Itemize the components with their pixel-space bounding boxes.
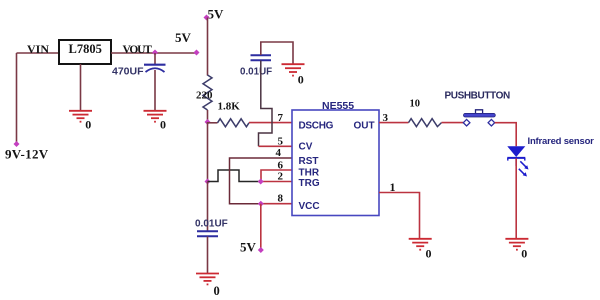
wire top cap down staircase to CV	[259, 61, 273, 147]
resistor R 220 vertical	[203, 75, 212, 110]
net 0 label (LED ground)	[521, 247, 527, 261]
pin number 4	[276, 147, 282, 159]
svg-text:OUT: OUT	[354, 120, 375, 131]
svg-text:PUSHBUTTON: PUSHBUTTON	[445, 91, 510, 102]
wire R220 bottom lead	[207, 110, 209, 122]
capacitor C3 0.01UF bottom	[197, 231, 218, 236]
pin number 2	[278, 170, 284, 182]
junction dot R220/R1.8K	[205, 119, 211, 125]
svg-text:0.01UF: 0.01UF	[195, 218, 228, 229]
svg-text:0: 0	[521, 247, 527, 261]
node VIN label	[27, 42, 49, 56]
svg-text:THR: THR	[299, 167, 320, 178]
svg-text:5V: 5V	[175, 30, 192, 45]
junction dot at 470UF tap	[152, 50, 158, 56]
pin label OUT	[354, 120, 375, 131]
pin number 3	[383, 112, 389, 124]
pin number 6	[278, 159, 284, 171]
svg-text:0.01UF: 0.01UF	[240, 66, 272, 77]
svg-text:VIN: VIN	[27, 42, 49, 56]
node VOUT label	[123, 44, 153, 56]
svg-text:5: 5	[278, 136, 284, 148]
svg-text:VOUT: VOUT	[123, 44, 153, 56]
pin number 1	[390, 180, 396, 194]
ground under L7805	[69, 111, 92, 122]
svg-text:2: 2	[278, 170, 284, 182]
net 5V label (bottom)	[240, 240, 257, 255]
value 0.01UF label (bottom cap)	[195, 218, 228, 229]
svg-text:5V: 5V	[208, 7, 225, 22]
node 5V terminal dot (left)	[194, 50, 200, 56]
op-amp U1 NE555 body	[292, 100, 379, 216]
diode D1 infrared LED	[507, 146, 528, 176]
svg-text:L7805: L7805	[69, 42, 102, 56]
net 0 label (pin1 ground)	[426, 247, 432, 261]
wire 5V rail mid section	[207, 122, 209, 182]
svg-text:1.8K: 1.8K	[218, 101, 241, 113]
net 0 label (top right ground)	[298, 72, 304, 86]
node 9V-12V label	[5, 147, 49, 162]
wire LED to ground	[515, 158, 517, 238]
pin label TRG	[299, 178, 320, 189]
ground under bottom 0.01UF	[196, 274, 219, 285]
wire R10 to pushbutton	[442, 122, 464, 124]
value 0.01UF label (top cap)	[240, 66, 272, 77]
svg-text:7: 7	[278, 112, 284, 124]
svg-text:10: 10	[410, 98, 421, 109]
svg-text:DSCHG: DSCHG	[299, 120, 334, 131]
pin label THR	[299, 167, 320, 178]
wire top cap to ground	[261, 42, 293, 64]
value 220 label	[196, 90, 213, 102]
wire VCC pin8 lead	[261, 203, 292, 205]
svg-text:0: 0	[426, 247, 432, 261]
junction dot THR/TRG tap	[205, 179, 211, 185]
svg-text:4: 4	[276, 147, 282, 159]
pin number 5	[278, 136, 284, 148]
svg-text:470UF: 470UF	[112, 66, 144, 78]
value 1.8K label	[218, 101, 241, 113]
ground under pin1	[409, 239, 432, 250]
pin number 7	[278, 112, 284, 124]
svg-text:0: 0	[160, 117, 166, 131]
value 10 label	[410, 98, 421, 109]
ground top right	[282, 64, 305, 75]
wire 1.8K left lead	[208, 122, 218, 124]
value 470UF label	[112, 66, 144, 78]
wire VOUT to 5V	[111, 52, 197, 54]
wire L7805 ground stub	[80, 64, 82, 111]
svg-text:CV: CV	[299, 141, 313, 152]
resistor R 1.8K horizontal	[218, 119, 250, 127]
wire CV pin5 lead	[259, 145, 293, 147]
wire OUT pin3 lead	[379, 122, 409, 124]
wire 470UF bottom stub	[154, 70, 156, 111]
svg-text:0: 0	[298, 72, 304, 86]
wire pushbutton to LED	[495, 123, 517, 147]
svg-text:RST: RST	[299, 156, 319, 167]
node 5V terminal dot (bottom)	[258, 247, 264, 253]
wire VIN horizontal	[17, 52, 60, 54]
capacitor C2 0.01UF top	[251, 55, 272, 60]
net 0 label (470UF ground)	[160, 117, 166, 131]
net 0 label (L7805 ground)	[85, 117, 91, 131]
wire pin1 to ground	[379, 193, 420, 239]
svg-text:TRG: TRG	[299, 178, 320, 189]
wire RST route to VCC node	[230, 158, 293, 204]
wire 5V rail down to R220	[207, 18, 209, 76]
svg-text:0: 0	[85, 117, 91, 131]
svg-text:5V: 5V	[240, 240, 257, 255]
ground under LED	[505, 239, 528, 250]
svg-text:VCC: VCC	[299, 201, 320, 212]
wire 1.8K to pin7 DSCHG	[249, 122, 292, 124]
wire step to TRG junction	[208, 170, 261, 182]
net 0 label (bottom cap ground)	[214, 284, 220, 298]
wire 9V-12V rail	[16, 53, 18, 144]
junction dot THR/TRG	[258, 179, 264, 185]
pin label DSCHG	[299, 120, 334, 131]
wire rail down to 0.01UF	[207, 182, 209, 232]
ground under 470UF	[144, 111, 167, 122]
wire 470UF top stub	[154, 53, 156, 64]
wire TRG pin2 lead	[261, 181, 292, 183]
svg-text:220: 220	[196, 90, 213, 102]
svg-text:0: 0	[214, 284, 220, 298]
svg-text:9V-12V: 9V-12V	[5, 147, 49, 162]
capacitor C1 470UF polarized	[144, 65, 166, 72]
regulator U2 L7805	[59, 40, 111, 64]
pin label VCC	[299, 201, 320, 212]
junction dot RST/VCC	[258, 201, 264, 207]
wire THR pin6 lead	[261, 170, 292, 182]
switch S1 PUSHBUTTON	[463, 110, 495, 126]
node 9V-12V terminal dot	[14, 141, 20, 147]
wire VCC rail to 5V	[260, 204, 262, 250]
resistor R 10 horizontal	[409, 119, 442, 127]
net 5V label (left)	[175, 30, 192, 45]
pin number 8	[278, 193, 284, 205]
svg-text:NE555: NE555	[322, 100, 354, 112]
label PUSHBUTTON	[445, 91, 510, 102]
pin label CV	[299, 141, 313, 152]
wire 0.01UF to ground	[207, 237, 209, 274]
net 5V label (top)	[208, 7, 225, 22]
svg-text:Infrared sensor: Infrared sensor	[528, 136, 595, 147]
label Infrared sensor	[528, 136, 595, 147]
svg-text:8: 8	[278, 193, 284, 205]
node 5V terminal dot (top)	[204, 15, 210, 21]
pin label RST	[299, 156, 319, 167]
